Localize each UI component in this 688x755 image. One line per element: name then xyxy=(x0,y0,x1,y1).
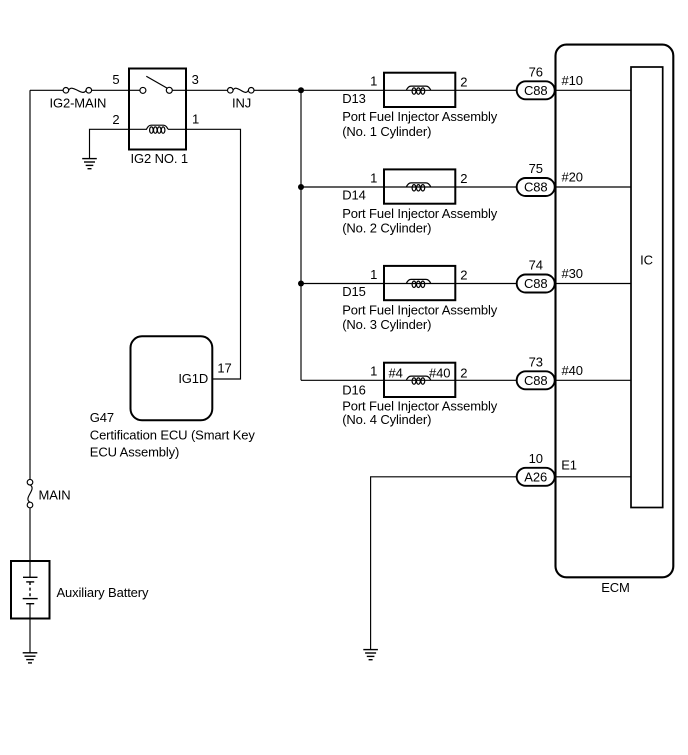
connector C88 row 3 xyxy=(517,258,583,293)
svg-text:(No. 1 Cylinder): (No. 1 Cylinder) xyxy=(342,124,431,139)
ground at E1 xyxy=(363,650,378,660)
svg-text:1: 1 xyxy=(370,170,377,185)
svg-text:E1: E1 xyxy=(561,457,577,472)
wire relay pin 1 to G47 pin 17 xyxy=(186,129,241,379)
svg-text:D13: D13 xyxy=(342,91,366,106)
svg-text:C88: C88 xyxy=(524,276,548,291)
ECU G47 box xyxy=(90,336,256,459)
svg-text:73: 73 xyxy=(529,354,543,369)
svg-text:#4: #4 xyxy=(389,365,403,380)
svg-text:INJ: INJ xyxy=(232,96,251,111)
svg-text:#10: #10 xyxy=(562,73,583,88)
svg-text:D14: D14 xyxy=(342,188,366,203)
svg-text:Port Fuel Injector Assembly: Port Fuel Injector Assembly xyxy=(342,109,498,124)
svg-text:76: 76 xyxy=(529,64,543,79)
svg-text:G47: G47 xyxy=(90,410,114,425)
svg-text:ECU Assembly): ECU Assembly) xyxy=(90,445,179,460)
ground below battery xyxy=(23,653,38,663)
connector C88 row 2 xyxy=(517,161,583,196)
injector D14 row xyxy=(342,169,631,235)
svg-text:1: 1 xyxy=(370,267,377,282)
svg-text:Port Fuel Injector Assembly: Port Fuel Injector Assembly xyxy=(342,302,498,317)
ground at relay pin 2 xyxy=(82,159,97,169)
wire top horizontal to IG2-MAIN fuse xyxy=(30,89,63,91)
relay switch blade xyxy=(146,76,167,88)
svg-text:75: 75 xyxy=(529,161,543,176)
svg-text:Port Fuel Injector Assembly: Port Fuel Injector Assembly xyxy=(342,206,498,221)
svg-text:IG2 NO. 1: IG2 NO. 1 xyxy=(131,151,188,166)
svg-text:(No. 3 Cylinder): (No. 3 Cylinder) xyxy=(342,317,431,332)
wire row 3 bus to injector xyxy=(301,283,384,285)
injector D16 row xyxy=(342,363,631,427)
svg-text:2: 2 xyxy=(112,112,119,127)
battery Auxiliary Battery xyxy=(11,561,149,619)
svg-text:#40: #40 xyxy=(429,365,450,380)
node junction row 1 xyxy=(298,87,304,93)
svg-text:IG1D: IG1D xyxy=(178,371,208,386)
connector C88 row 1 xyxy=(517,64,583,99)
svg-text:#30: #30 xyxy=(562,266,583,281)
relay coil xyxy=(129,125,186,133)
svg-text:3: 3 xyxy=(192,72,199,87)
relay IG2 NO. 1 xyxy=(112,69,199,166)
svg-text:Auxiliary Battery: Auxiliary Battery xyxy=(57,585,150,600)
svg-text:Certification ECU (Smart Key: Certification ECU (Smart Key xyxy=(90,428,256,443)
fuse MAIN xyxy=(27,479,70,507)
relay contact circles xyxy=(140,87,146,93)
svg-text:10: 10 xyxy=(529,451,543,466)
injector D13 row xyxy=(342,73,631,139)
wire E1 row to ground xyxy=(371,477,631,650)
fuse INJ xyxy=(228,88,255,111)
wire relay pin 3 to INJ fuse xyxy=(186,89,228,91)
relay contact pin 5 lead xyxy=(129,89,140,91)
svg-text:D15: D15 xyxy=(342,284,366,299)
svg-text:#40: #40 xyxy=(562,363,583,378)
relay contact pin 3 lead xyxy=(172,89,186,91)
wire INJ fuse to bus and row 1 xyxy=(254,89,384,91)
svg-text:1: 1 xyxy=(370,74,377,89)
svg-text:17: 17 xyxy=(217,360,231,375)
svg-text:1: 1 xyxy=(192,111,199,126)
svg-text:IC: IC xyxy=(640,253,653,268)
svg-text:C88: C88 xyxy=(524,83,548,98)
svg-text:74: 74 xyxy=(529,258,543,273)
wire MAIN fuse to battery xyxy=(29,508,31,578)
svg-text:#20: #20 xyxy=(562,170,583,185)
wire row 4 bus corner to injector xyxy=(301,379,384,381)
svg-text:C88: C88 xyxy=(524,180,548,195)
injector D15 row xyxy=(342,266,631,332)
svg-text:2: 2 xyxy=(460,365,467,380)
svg-text:2: 2 xyxy=(460,74,467,89)
svg-text:5: 5 xyxy=(112,72,119,87)
connector C88 row 4 xyxy=(517,354,583,389)
svg-text:A26: A26 xyxy=(524,470,547,485)
svg-text:2: 2 xyxy=(460,171,467,186)
svg-text:2: 2 xyxy=(460,268,467,283)
svg-text:(No. 2 Cylinder): (No. 2 Cylinder) xyxy=(342,221,431,236)
node junction row 3 xyxy=(298,281,304,287)
wire IG2-MAIN fuse to relay xyxy=(92,89,130,91)
wire left vertical bus from top wire to MAIN fuse xyxy=(29,90,31,479)
svg-text:MAIN: MAIN xyxy=(39,487,71,502)
svg-text:D16: D16 xyxy=(342,383,366,398)
svg-text:ECM: ECM xyxy=(601,580,630,595)
node junction row 2 xyxy=(298,184,304,190)
wire relay pin 2 to ground xyxy=(90,129,130,158)
svg-text:(No. 4 Cylinder): (No. 4 Cylinder) xyxy=(342,412,431,427)
fuse IG2-MAIN xyxy=(50,88,107,111)
connector A26 row 5 xyxy=(517,451,577,486)
wire row 2 bus to injector xyxy=(301,186,384,188)
svg-text:IG2-MAIN: IG2-MAIN xyxy=(50,96,107,111)
ECM box xyxy=(556,45,674,596)
svg-text:C88: C88 xyxy=(524,373,548,388)
wire bus vertical xyxy=(300,90,302,380)
wire battery to ground xyxy=(29,604,31,653)
IC block inside ECM xyxy=(631,67,663,508)
svg-text:1: 1 xyxy=(370,364,377,379)
